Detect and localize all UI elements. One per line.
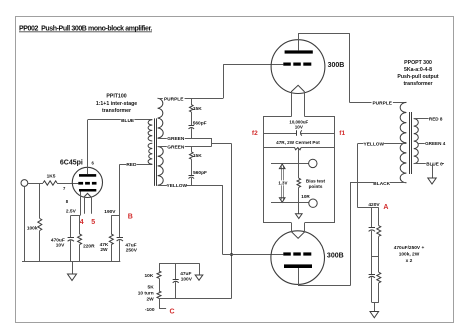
ground (secondary): [428, 164, 436, 184]
wire GREEN lower: [158, 146, 212, 148]
svg-text:GREEN: GREEN: [167, 136, 185, 142]
junction bar bottom: [372, 302, 379, 304]
svg-text:PPIT100: PPIT100: [106, 93, 126, 99]
svg-text:250V: 250V: [126, 248, 138, 254]
svg-text:47uF: 47uF: [125, 242, 136, 248]
svg-text:1K5: 1K5: [47, 174, 56, 180]
node PURPLE: [163, 96, 185, 103]
cathode node tick: [71, 215, 80, 217]
resistor 47K 2W: [100, 215, 114, 261]
svg-text:10K: 10K: [144, 273, 153, 279]
wire 1K5 to grid: [57, 183, 78, 185]
svg-text:5Ka-a:0-4-8: 5Ka-a:0-4-8: [404, 67, 432, 73]
tap GREEN 4: [418, 141, 446, 146]
ground bus: [22, 261, 120, 263]
svg-text:2W: 2W: [100, 247, 108, 253]
svg-text:YELLOW: YELLOW: [364, 142, 385, 148]
wire CT takeoff: [212, 143, 232, 145]
node YELLOW: [167, 183, 188, 190]
T1 primary winding: [148, 120, 152, 164]
node RED: [126, 161, 137, 168]
svg-text:2W: 2W: [146, 296, 154, 302]
resistor 100k 2W lower: [377, 256, 381, 303]
grid dashes V3: [283, 252, 311, 255]
tube V3 lower 300B: [271, 231, 344, 285]
svg-text:PURPLE: PURPLE: [164, 96, 184, 102]
svg-text:f2: f2: [252, 130, 258, 137]
wire bias riser: [231, 144, 233, 299]
T1 secondary winding lower: [158, 147, 164, 186]
svg-text:A: A: [383, 204, 388, 211]
anode bar V3: [284, 264, 312, 268]
bias supply top wire: [159, 263, 199, 265]
wire input ground drop: [24, 186, 26, 261]
filament legs V1 pins 4,5: [85, 197, 92, 214]
node GREEN lower: [167, 144, 185, 151]
svg-text:5: 5: [91, 219, 95, 226]
junction bias/grid: [230, 253, 233, 256]
svg-text:10 turn: 10 turn: [138, 291, 154, 297]
filament notch V1: [84, 193, 92, 197]
node GREEN upper: [167, 135, 185, 142]
T2 primary winding: [400, 102, 406, 182]
bias test line upper: [271, 163, 309, 165]
svg-text:300B: 300B: [327, 252, 344, 259]
svg-text:BLUE 0: BLUE 0: [426, 162, 443, 167]
wire BLUE anode to interstage: [88, 119, 153, 121]
transformer T1 PPIT100 label: [96, 93, 137, 114]
capacitor 470uF/250V lower: [369, 256, 375, 303]
wire lower anode bottom run: [298, 285, 350, 287]
pot wiper line: [298, 149, 300, 179]
capacitor 470uF 10V: [51, 215, 74, 261]
T1 core: [155, 118, 157, 185]
anode lead V2: [298, 33, 300, 50]
T2 secondary winding: [414, 119, 419, 164]
wire YELLOW: [158, 185, 223, 187]
filament legs V3: [292, 223, 305, 232]
grid dashes V1: [78, 182, 96, 185]
svg-text:transformer: transformer: [102, 108, 131, 114]
capacitor 560pF (lower snubber): [189, 170, 208, 185]
capacitor 470uF/250V upper: [369, 208, 375, 256]
input jack: [21, 180, 28, 187]
anode bar V1: [79, 174, 96, 177]
svg-text:10V: 10V: [56, 242, 65, 248]
test point circle upper: [309, 159, 317, 167]
cathode bar V1: [79, 189, 96, 192]
svg-text:300B: 300B: [328, 62, 345, 69]
svg-text:100k: 100k: [27, 226, 38, 232]
resistor 15K (upper snubber): [190, 98, 203, 125]
svg-text:560pF: 560pF: [193, 121, 207, 127]
bias bottom wire: [159, 298, 232, 300]
svg-text:4: 4: [80, 219, 84, 226]
svg-text:1.3V: 1.3V: [278, 181, 287, 186]
T1 secondary winding upper: [158, 98, 164, 138]
measure arrow 1.3V: [279, 164, 285, 202]
svg-text:100k, 2W: 100k, 2W: [399, 252, 420, 258]
triode V1 6C45pi: [60, 160, 103, 198]
label 10,000uF 10V: [289, 119, 308, 129]
ground (PSU string): [370, 303, 379, 318]
resistor 10R: [297, 178, 310, 214]
svg-text:6C45pi: 6C45pi: [60, 160, 83, 167]
svg-text:RED 8: RED 8: [429, 117, 443, 122]
capacitor 10,000uF line f2-f1: [263, 130, 335, 135]
svg-text:470uF/250V +: 470uF/250V +: [394, 245, 425, 251]
wire -100 tail: [160, 299, 167, 309]
svg-text:RED: RED: [126, 162, 137, 168]
cathode lead: [80, 192, 82, 216]
anode lead V3: [298, 268, 300, 286]
test point circle lower: [309, 199, 317, 207]
wire GREEN upper: [158, 138, 212, 140]
svg-text:transformer: transformer: [403, 81, 432, 87]
capacitor 560pF (upper snubber): [189, 121, 207, 138]
resistor 100k 2W upper: [377, 208, 381, 256]
transformer T2 PPOPT label: [397, 60, 438, 87]
svg-text:560pF: 560pF: [193, 170, 207, 176]
tap BLUE 0: [414, 161, 444, 167]
svg-text:2.5V: 2.5V: [66, 208, 77, 214]
filament notch V3: [291, 232, 304, 239]
T2 core: [410, 112, 412, 174]
resistor 10K: [144, 263, 161, 291]
wire PURPLE: [158, 98, 224, 100]
filament notch V2: [291, 85, 305, 92]
svg-text:BLUE: BLUE: [121, 118, 135, 124]
resistor 220R: [78, 215, 95, 261]
tap RED 8: [414, 117, 443, 122]
filament legs V2: [292, 92, 305, 117]
svg-text:f1: f1: [339, 130, 345, 137]
node YELLOW (OPT): [364, 141, 385, 148]
capacitor 47uF 250V: [117, 164, 138, 261]
svg-text:100V: 100V: [181, 277, 193, 283]
wire PURPLE (OPT primary top): [349, 102, 406, 104]
svg-text:190V: 190V: [104, 209, 116, 215]
label 470uF/250V + 100k 2W x2: [394, 245, 425, 264]
capacitor 47uF 100V: [173, 263, 193, 298]
wire BLACK (OPT primary bottom): [350, 182, 406, 184]
anode lead V1: [87, 120, 89, 174]
svg-text:-100: -100: [145, 307, 155, 313]
svg-text:GREEN: GREEN: [167, 144, 185, 150]
svg-text:47R, 2W Cermet Pot: 47R, 2W Cermet Pot: [276, 140, 320, 145]
ground (bias supply): [195, 263, 203, 280]
ground: [68, 261, 77, 280]
svg-text:Push-pull output: Push-pull output: [397, 74, 438, 80]
svg-text:10R: 10R: [301, 194, 310, 199]
svg-text:points: points: [309, 184, 323, 189]
node PURPLE (OPT): [372, 100, 393, 107]
resistor 15K (lower snubber): [190, 147, 203, 176]
svg-text:5K: 5K: [148, 285, 155, 291]
riser anode to BLACK (OPT): [350, 183, 352, 286]
svg-text:PPOPT 300: PPOPT 300: [404, 60, 432, 66]
label Bias test points: [306, 178, 326, 189]
riser anode to PURPLE (OPT): [349, 33, 351, 102]
riser YELLOW to lower grid: [222, 185, 224, 254]
node BLACK: [373, 180, 390, 187]
wire upper 300B grid: [223, 64, 283, 66]
resistor 100k: [27, 183, 42, 261]
svg-text:220R: 220R: [83, 244, 95, 250]
resistor 1K5: [43, 174, 57, 186]
svg-text:x 2: x 2: [406, 258, 413, 264]
svg-text:PP002 Push-Pull 300B mono-blo: PP002 Push-Pull 300B mono-block amplifie…: [19, 26, 152, 33]
svg-text:PURPLE: PURPLE: [372, 101, 392, 107]
node B tick: [111, 215, 120, 217]
svg-text:10V: 10V: [295, 125, 304, 130]
potentiometer 5K 10 turn 2W: [138, 285, 161, 303]
wire green join vertical: [211, 138, 213, 147]
bias box: [264, 117, 335, 223]
wiper down arrow: [296, 214, 303, 219]
svg-text:C: C: [169, 308, 174, 315]
wire RED to interstage primary bottom: [120, 164, 153, 166]
svg-text:Bias test: Bias test: [306, 178, 326, 183]
riser PURPLE to upper grid: [223, 65, 225, 99]
svg-text:BLACK: BLACK: [373, 181, 390, 187]
junction bar mid: [372, 256, 379, 258]
potentiometer 47R element: [263, 147, 335, 150]
bias test line lower: [271, 202, 309, 204]
grid dashes V2: [283, 63, 311, 66]
svg-text:GREEN 4: GREEN 4: [425, 141, 446, 146]
anode bar V2: [285, 50, 313, 53]
wire YELLOW (OPT center tap): [358, 143, 407, 145]
svg-text:15K: 15K: [193, 153, 202, 159]
node BLUE: [121, 117, 135, 124]
wire 420V node: [358, 207, 379, 209]
svg-text:47uF: 47uF: [180, 271, 191, 277]
riser 420V to YELLOW: [357, 143, 359, 207]
wire lower 300B grid: [223, 254, 283, 256]
wire upper anode top run: [298, 33, 349, 35]
svg-text:15K: 15K: [193, 106, 202, 112]
svg-text:B: B: [128, 214, 133, 221]
svg-text:YELLOW: YELLOW: [167, 183, 188, 189]
label 1.3V: [278, 180, 287, 185]
svg-text:1:1+1 inter-stage: 1:1+1 inter-stage: [96, 101, 137, 107]
wire input to 1K5: [28, 183, 43, 185]
tube V2 upper 300B: [271, 40, 344, 94]
